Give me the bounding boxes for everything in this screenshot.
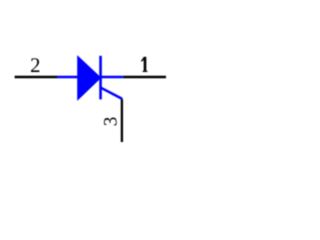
wire <box>15 76 58 79</box>
node 3 <box>104 117 117 125</box>
wire <box>123 76 166 79</box>
thyristor triangle <box>78 56 101 99</box>
thyristor cathode bar <box>99 56 102 100</box>
node 1 <box>141 57 148 72</box>
thyristor anode lead <box>58 76 79 79</box>
wire <box>121 99 123 142</box>
node 2 <box>31 58 39 72</box>
thyristor gate lead <box>101 88 122 99</box>
thyristor cathode lead <box>101 76 123 79</box>
